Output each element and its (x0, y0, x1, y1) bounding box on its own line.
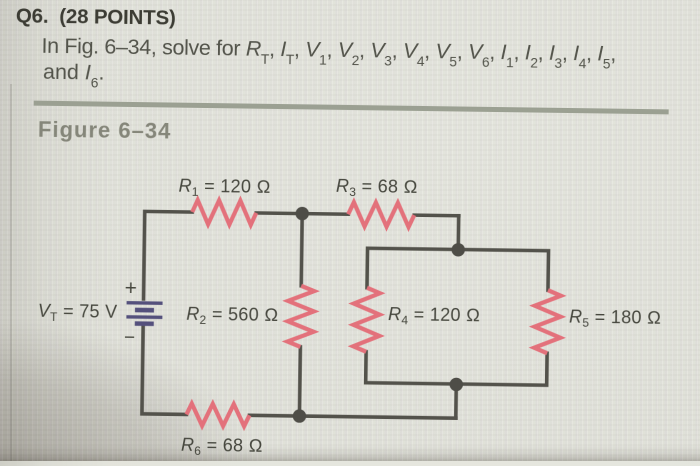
svg-text:R4 = 120 Ω: R4 = 120 Ω (388, 304, 480, 328)
svg-text:R1 = 120 Ω: R1 = 120 Ω (178, 176, 270, 200)
svg-text:+: + (125, 277, 138, 300)
svg-text:R6 = 68 Ω: R6 = 68 Ω (181, 434, 263, 458)
svg-text:R5 = 180 Ω: R5 = 180 Ω (569, 307, 661, 331)
svg-text:−: − (124, 327, 136, 348)
svg-text:R3 = 68 Ω: R3 = 68 Ω (336, 176, 418, 200)
svg-text:R2 = 560 Ω: R2 = 560 Ω (186, 304, 278, 328)
svg-text:VT = 75 V: VT = 75 V (38, 301, 118, 325)
